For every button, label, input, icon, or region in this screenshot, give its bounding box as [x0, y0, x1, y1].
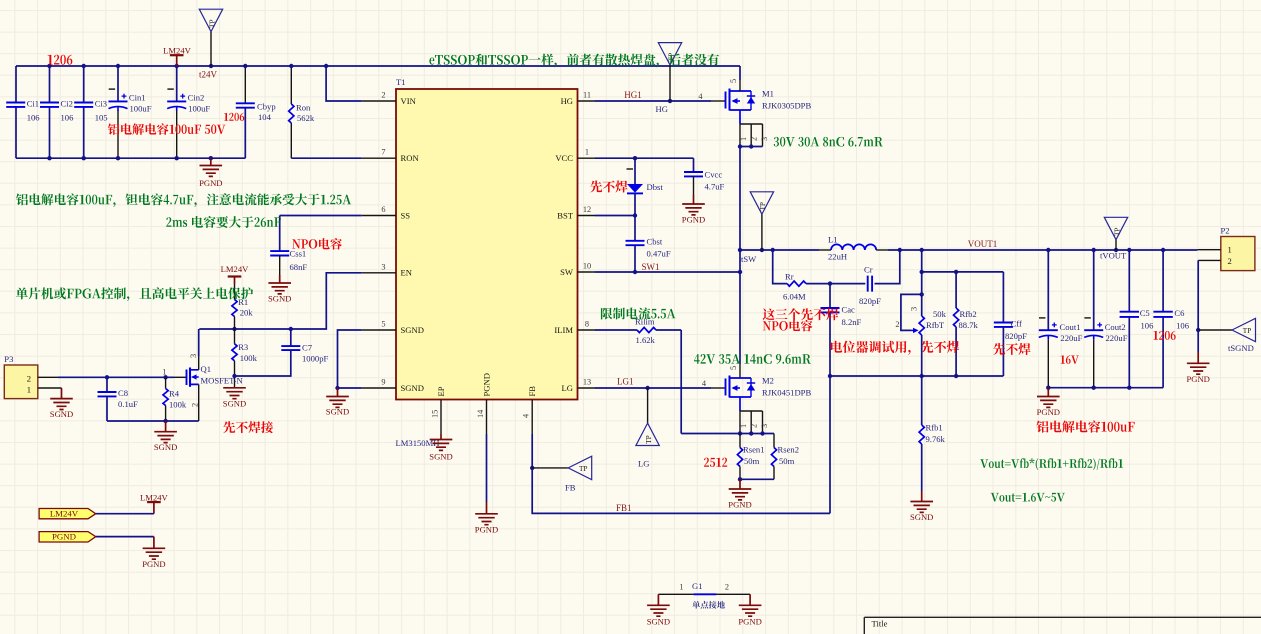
svg-text:SS: SS [401, 210, 411, 220]
ground PGND input rail [210, 158, 212, 165]
resistor Rfb1 [921, 376, 923, 425]
svg-text:SGND: SGND [223, 398, 246, 408]
node bus junction [163, 419, 167, 423]
svg-text:LG1: LG1 [617, 377, 634, 387]
diode Dbst [634, 158, 636, 184]
resistor Rr [787, 281, 806, 286]
svg-text:T1: T1 [396, 77, 406, 87]
svg-text:PGND: PGND [738, 616, 761, 626]
svg-text:3: 3 [189, 354, 198, 358]
wire Dbst to BST [634, 193, 636, 215]
svg-text:5: 5 [729, 79, 738, 83]
svg-text:2: 2 [750, 137, 759, 141]
svg-text:L1: L1 [828, 235, 838, 245]
svg-text:Cin1: Cin1 [129, 92, 146, 102]
svg-text:PGND: PGND [1037, 407, 1060, 417]
svg-text:TP: TP [579, 464, 588, 473]
note input cap advice [16, 193, 351, 207]
svg-text:C7: C7 [302, 343, 313, 353]
wire ILIM to sense [680, 330, 682, 434]
svg-text:PGND: PGND [142, 559, 165, 569]
svg-text:SGND: SGND [401, 325, 424, 335]
node tSGND junction [1196, 328, 1200, 332]
testpoint TP LG [647, 388, 649, 423]
svg-text:4.7uF: 4.7uF [705, 182, 725, 192]
net-tie G1 [658, 593, 693, 595]
svg-text:22uH: 22uH [828, 252, 847, 262]
resistor R3 [234, 329, 236, 344]
svg-text:tVOUT: tVOUT [1100, 251, 1127, 261]
node FB junction [530, 466, 534, 470]
svg-text:2: 2 [27, 373, 31, 383]
svg-text:EP: EP [436, 386, 446, 396]
capacitor C8 [106, 377, 108, 392]
svg-text:R3: R3 [238, 342, 248, 352]
svg-text:100k: 100k [169, 400, 187, 410]
svg-text:Cff: Cff [1011, 319, 1022, 329]
svg-text:2: 2 [381, 91, 385, 100]
svg-text:Cvcc: Cvcc [705, 170, 723, 180]
ground SGND EP [440, 434, 442, 440]
wire P2 pin2 net [1198, 259, 1221, 261]
capacitor Cout1 [1047, 250, 1049, 330]
svg-text:1: 1 [585, 148, 589, 157]
svg-text:106: 106 [1141, 321, 1155, 331]
testpoint TP HG [658, 43, 681, 65]
svg-text:100uF: 100uF [130, 104, 152, 114]
svg-text:HG: HG [561, 96, 573, 106]
svg-text:Rsen2: Rsen2 [778, 445, 799, 455]
svg-text:P2: P2 [1221, 226, 1230, 236]
transistor M2 [725, 379, 727, 396]
note MCU control [16, 287, 253, 301]
svg-text:2: 2 [725, 583, 729, 592]
svg-text:1: 1 [1228, 245, 1232, 255]
note M2 specs [694, 354, 811, 364]
note NPO Css1 [292, 238, 342, 250]
capacitor Cff [1002, 272, 1004, 323]
svg-text:11: 11 [583, 91, 591, 100]
svg-text:Ron: Ron [296, 102, 311, 112]
note three no-solder [763, 308, 839, 320]
node Cac/FB junction [828, 374, 832, 378]
note output electrolytic [1036, 420, 1134, 432]
svg-text:MOSFET-N: MOSFET-N [201, 376, 244, 386]
svg-text:10: 10 [583, 262, 591, 271]
svg-text:5: 5 [381, 320, 385, 329]
resistor Rsen1 [739, 434, 741, 448]
svg-text:SW1: SW1 [642, 262, 660, 272]
svg-text:3: 3 [760, 137, 769, 141]
wire P3 pin2 net [38, 376, 58, 378]
svg-text:Cbst: Cbst [647, 237, 663, 247]
svg-text:88.7k: 88.7k [959, 320, 979, 330]
svg-text:Ci1: Ci1 [27, 99, 39, 109]
note 1206 C5C6 [1153, 331, 1175, 340]
svg-text:SGND: SGND [401, 383, 424, 393]
wire M1 source bus [740, 146, 763, 148]
node VOUT rail junctions [898, 248, 902, 252]
svg-text:LM24V: LM24V [50, 509, 79, 519]
wire M1 drain [739, 66, 741, 80]
svg-text:FB: FB [565, 483, 576, 493]
wire Rr to Cr [806, 283, 865, 285]
wire Rr branch [773, 250, 787, 284]
ground PGND G1 [749, 594, 751, 605]
svg-text:Cout2: Cout2 [1105, 322, 1126, 332]
svg-text:3: 3 [381, 262, 385, 271]
svg-text:5: 5 [729, 366, 738, 370]
svg-text:SGND: SGND [326, 407, 349, 417]
wire PGND pin14 [486, 434, 488, 502]
ground SGND bus [165, 421, 167, 432]
wire Cin2 column [176, 66, 178, 101]
svg-text:LM24V: LM24V [140, 492, 168, 502]
svg-text:13: 13 [583, 378, 591, 387]
testpoint TP t24V [199, 9, 222, 31]
capacitor Ci3 [74, 103, 93, 107]
svg-text:820pF: 820pF [1005, 331, 1027, 341]
svg-text:68nF: 68nF [290, 262, 308, 272]
ground SGND pins5-9 [337, 388, 339, 397]
svg-text:50k: 50k [933, 309, 947, 319]
title block [864, 617, 1261, 634]
svg-text:220uF: 220uF [1106, 333, 1128, 343]
svg-text:LG: LG [638, 459, 649, 469]
svg-text:SGND: SGND [154, 442, 177, 452]
svg-text:106: 106 [61, 112, 75, 122]
svg-text:VIN: VIN [401, 96, 417, 106]
wire Ron to RON pin [291, 157, 361, 159]
wire fb bus [830, 375, 1003, 377]
svg-text:3: 3 [910, 307, 919, 311]
resistor Rilim [595, 329, 637, 331]
wire VCC net [595, 157, 694, 159]
svg-text:Ci2: Ci2 [61, 99, 73, 109]
svg-text:Cac: Cac [842, 305, 856, 315]
note potentiometer [831, 341, 959, 355]
wire M2 source pins box [739, 397, 741, 411]
T1 right pins [578, 100, 596, 102]
capacitor C7 [290, 329, 292, 346]
wire bottom input GND rail [16, 157, 245, 159]
svg-text:9: 9 [381, 378, 385, 387]
capacitor Ci2 [40, 103, 59, 107]
svg-text:RJK0451DPB: RJK0451DPB [762, 388, 811, 398]
ground SGND Css1 [279, 256, 281, 276]
svg-text:HG1: HG1 [624, 90, 642, 100]
capacitor C6 [1162, 250, 1164, 312]
svg-text:Rsen1: Rsen1 [743, 445, 764, 455]
svg-text:tSW: tSW [741, 254, 757, 264]
svg-text:Cbyp: Cbyp [257, 102, 276, 112]
svg-text:C5: C5 [1140, 308, 1150, 318]
port PGND [39, 532, 96, 542]
capacitor Cr [868, 276, 872, 292]
resistor R1 [234, 284, 236, 300]
wire VIN tap [326, 66, 362, 101]
ground SGND P3 [61, 388, 63, 399]
node P3 net junctions [105, 375, 109, 379]
svg-text:PGND: PGND [682, 215, 705, 225]
capacitor Cbyp [236, 103, 255, 107]
note Q1 no-solder [223, 421, 273, 433]
wire Q1 drain [198, 356, 200, 370]
svg-text:105: 105 [95, 112, 108, 122]
svg-text:1: 1 [739, 137, 748, 141]
svg-text:EN: EN [401, 268, 413, 278]
ground PGND Cout [1047, 388, 1049, 397]
note current limit [601, 307, 676, 319]
note Vout formula [980, 458, 1123, 470]
svg-text:SGND: SGND [268, 294, 291, 304]
node EN junctions [232, 327, 236, 331]
svg-text:PGND: PGND [52, 532, 76, 542]
svg-text:220uF: 220uF [1060, 333, 1082, 343]
svg-text:TP: TP [644, 435, 653, 444]
ground PGND P2 [1197, 330, 1199, 352]
wire sense bottom [740, 478, 774, 480]
capacitor Cac [829, 284, 831, 308]
svg-text:TP: TP [758, 202, 767, 211]
testpoint TP tSW [750, 192, 773, 214]
ground SGND G1 [657, 594, 659, 605]
svg-text:Dbst: Dbst [647, 182, 664, 192]
wire M2 gate pin [711, 387, 726, 389]
transistor Q1 [186, 370, 188, 386]
svg-text:tSGND: tSGND [1228, 343, 1254, 353]
testpoint TP tVOUT [1104, 217, 1127, 239]
svg-text:M2: M2 [762, 376, 774, 386]
svg-text:0.1uF: 0.1uF [118, 399, 138, 409]
node SGND junction [335, 386, 339, 390]
svg-text:ILIM: ILIM [554, 325, 573, 335]
port LM24V [39, 509, 96, 519]
resistor R4 [165, 377, 167, 388]
svg-text:HG: HG [656, 104, 668, 114]
wire P2 pin1 [1197, 249, 1220, 251]
wire VOUT rail [888, 249, 1197, 251]
capacitor Cin2 [167, 100, 186, 102]
wire HG net [595, 100, 711, 102]
note 1206 input [48, 55, 73, 65]
svg-text:G1: G1 [692, 581, 703, 591]
ground SGND R3 [223, 388, 246, 399]
wire SGND pins net [338, 330, 362, 388]
wire M1 source pins box [739, 110, 741, 124]
svg-text:0.47uF: 0.47uF [647, 249, 671, 259]
svg-text:Cr: Cr [864, 264, 873, 274]
capacitor C5 [1128, 250, 1130, 312]
connector P3 [4, 365, 38, 399]
wire SW net [595, 271, 740, 273]
note 16V [1061, 355, 1079, 364]
svg-text:LM24V: LM24V [163, 45, 191, 55]
wire Cin1 column [117, 66, 119, 101]
svg-text:RJK0305DPB: RJK0305DPB [762, 101, 811, 111]
svg-text:50m: 50m [744, 456, 760, 466]
svg-text:1000pF: 1000pF [302, 354, 328, 364]
note electrolytic 100uF 50V [108, 123, 226, 135]
svg-text:FB1: FB1 [616, 503, 632, 513]
ground PGND Cvcc [693, 176, 695, 195]
svg-text:Css1: Css1 [290, 249, 307, 259]
wire C8-R4-Q1 bus [107, 420, 199, 422]
svg-text:Cout1: Cout1 [1060, 322, 1081, 332]
svg-text:LG: LG [562, 383, 573, 393]
svg-text:Rr: Rr [785, 271, 794, 281]
svg-text:8: 8 [585, 320, 589, 329]
svg-text:8.2nF: 8.2nF [842, 317, 862, 327]
svg-text:PGND: PGND [475, 524, 498, 534]
svg-text:Rfb2: Rfb2 [960, 309, 977, 319]
note single point ground [692, 601, 725, 609]
wire LG net [595, 387, 711, 389]
svg-text:104: 104 [258, 112, 272, 122]
svg-text:TP: TP [1243, 326, 1252, 335]
T1 left pins [362, 100, 396, 102]
svg-text:SGND: SGND [910, 512, 933, 522]
svg-text:PGND: PGND [1186, 374, 1209, 384]
svg-text:3: 3 [760, 424, 769, 428]
svg-text:7: 7 [381, 148, 385, 157]
svg-text:R4: R4 [169, 389, 180, 399]
testpoint TP FB [532, 467, 568, 469]
svg-text:RON: RON [401, 153, 420, 163]
svg-text:Ci3: Ci3 [95, 99, 107, 109]
svg-text:LM24V: LM24V [221, 264, 249, 274]
wire M1 gate pin [711, 100, 726, 102]
wire top +24V rail [16, 65, 740, 67]
capacitor Cbst [634, 216, 636, 241]
svg-text:6.04M: 6.04M [783, 291, 806, 301]
note M1 specs [774, 137, 883, 147]
node R3/C7 junction [232, 374, 236, 378]
wire FB net [532, 434, 830, 513]
svg-text:Rfb1: Rfb1 [926, 423, 943, 433]
wire PGND port [96, 536, 154, 538]
svg-text:50m: 50m [779, 456, 795, 466]
transistor M1 [725, 92, 727, 109]
svg-text:12: 12 [583, 205, 591, 214]
capacitor Cvcc [693, 158, 695, 172]
svg-text:1: 1 [27, 384, 31, 394]
note 1206 Cbyp [224, 113, 244, 121]
svg-text:6: 6 [381, 205, 385, 214]
svg-text:1: 1 [162, 367, 166, 376]
svg-text:C8: C8 [118, 388, 128, 398]
note Dbst no-solder [590, 181, 627, 193]
wire Cr to VOUT [875, 250, 900, 284]
svg-text:106: 106 [27, 112, 41, 122]
resistor Ron [290, 66, 292, 104]
note eTSSOP [429, 54, 719, 68]
op-amp U1 body (LM3150 T1) [396, 89, 578, 400]
wire left rail (Ci1 column) [15, 66, 17, 103]
svg-text:106: 106 [1176, 321, 1190, 331]
svg-text:VCC: VCC [555, 153, 573, 163]
svg-text:M1: M1 [762, 89, 774, 99]
svg-text:SGND: SGND [50, 409, 73, 419]
wire output gnd bus [1048, 387, 1163, 389]
svg-text:100k: 100k [240, 353, 258, 363]
note Vout range [991, 493, 1065, 502]
svg-text:t24V: t24V [199, 70, 218, 80]
svg-text:2: 2 [895, 320, 899, 329]
svg-text:820pF: 820pF [859, 296, 881, 306]
note NPO Cac [763, 320, 813, 332]
wire SW column [739, 147, 741, 365]
wire sense row [681, 433, 774, 435]
svg-text:15: 15 [431, 410, 440, 418]
wire Q1 source [198, 384, 200, 421]
svg-text:P3: P3 [4, 354, 13, 364]
wire tSW row [740, 249, 773, 251]
svg-text:FB: FB [527, 386, 537, 397]
note Cff no-solder [993, 343, 1030, 355]
svg-text:PGND: PGND [199, 178, 222, 188]
svg-text:VOUT1: VOUT1 [968, 239, 998, 249]
note 2ms cap [166, 216, 281, 228]
svg-text:2: 2 [1228, 256, 1232, 266]
wire P3 pin1 stub [38, 387, 62, 389]
svg-text:100uF: 100uF [188, 104, 210, 114]
connector P2 [1221, 237, 1255, 271]
resistor Rsen2 [773, 434, 775, 448]
svg-text:2: 2 [750, 424, 759, 428]
wire fb sub-rail [922, 250, 1004, 272]
svg-text:SGND: SGND [647, 616, 670, 626]
wire Ci3 column [83, 66, 85, 103]
svg-text:SGND: SGND [429, 452, 452, 462]
note 2512 [704, 458, 727, 467]
svg-text:TP: TP [207, 19, 216, 28]
svg-text:Title: Title [872, 619, 888, 629]
ground PGND port [153, 537, 155, 549]
wire LM24V port [96, 513, 154, 515]
wire Ci2 column [49, 66, 51, 103]
ground PGND pin14 [486, 502, 488, 514]
svg-text:PGND: PGND [728, 500, 751, 510]
svg-text:SW: SW [560, 267, 574, 277]
potentiometer RfbT [921, 272, 923, 316]
wire EN net [199, 273, 361, 329]
T1 bottom pins [440, 400, 442, 435]
svg-text:1: 1 [679, 583, 683, 592]
svg-text:1: 1 [739, 424, 748, 428]
svg-text:PGND: PGND [482, 373, 492, 396]
inductor L1 [773, 249, 819, 251]
capacitor Css1 [270, 251, 289, 255]
svg-text:Q1: Q1 [201, 364, 212, 374]
testpoint TP tSGND [1198, 329, 1232, 331]
capacitor Ci1 [6, 103, 25, 107]
wire SS net [280, 215, 362, 217]
node top rail junctions [47, 64, 51, 68]
svg-text:9.76k: 9.76k [926, 434, 946, 444]
svg-text:RfbT: RfbT [926, 320, 945, 330]
svg-text:TP: TP [1112, 228, 1121, 237]
capacitor Cin1 [109, 100, 128, 102]
wire Cbyp column [244, 66, 246, 103]
ground SGND Rfb1 [921, 491, 923, 502]
resistor Rfb2 [955, 272, 957, 308]
svg-text:562k: 562k [297, 113, 315, 123]
capacitor Cout2 [1093, 250, 1095, 330]
node bottom rail junctions [47, 156, 51, 160]
svg-text:1.62k: 1.62k [636, 335, 656, 345]
svg-text:20k: 20k [240, 307, 254, 317]
